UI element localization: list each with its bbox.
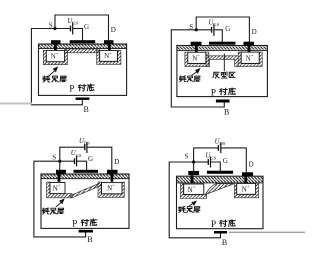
svg-text:G: G (88, 155, 93, 163)
depletion band left well (L shape) (47, 182, 73, 198)
svg-text:P: P (69, 85, 74, 95)
depletion strip under gate (65, 49, 100, 53)
svg-text:P: P (72, 219, 77, 229)
depletion band left well (43, 50, 67, 64)
svg-text:B: B (224, 107, 229, 116)
N+ region right (100, 50, 118, 61)
wire S down to contact (59, 161, 61, 170)
wire top S-D short (196, 17, 249, 42)
svg-text:GS: GS (76, 153, 82, 158)
depletion band right well (98, 182, 124, 197)
wire S down to contact (193, 162, 195, 171)
arrow to depletion layer (189, 203, 193, 206)
wire battery to G (73, 29, 82, 41)
wire top with UDS (194, 148, 218, 162)
S contact electrode (56, 170, 66, 174)
svg-text:G: G (84, 23, 89, 31)
D contact electrode (107, 170, 118, 174)
node S junction (192, 160, 195, 163)
node S junction (53, 27, 56, 30)
svg-text:G: G (223, 157, 228, 165)
svg-text:B: B (84, 105, 89, 114)
G gate electrode (209, 42, 235, 45)
wire battery to G (211, 162, 220, 171)
substrate box (39, 44, 127, 95)
D contact electrode (104, 40, 114, 44)
svg-text:D: D (249, 160, 254, 168)
battery UGS1 (70, 26, 72, 30)
svg-text:D: D (252, 28, 257, 36)
oxide layer hatched (177, 177, 263, 183)
S contact electrode (191, 42, 202, 46)
G gate electrode (74, 170, 99, 173)
wire S left to body loop (31, 29, 82, 105)
battery UGS2 (211, 28, 213, 32)
N+ region right (241, 52, 259, 63)
label haojinceng (depletion layer) (178, 206, 185, 212)
N+ region left (188, 52, 206, 63)
svg-text:GS: GS (72, 20, 78, 25)
depletion trough under channel (206, 56, 238, 67)
substrate box (177, 46, 268, 97)
svg-text:GS: GS (210, 155, 216, 160)
gray artifact line (0, 103, 31, 105)
svg-text:GS: GS (213, 22, 219, 27)
svg-text:P: P (211, 88, 216, 98)
wire battery to G (77, 161, 86, 170)
oxide layer hatched (177, 46, 267, 50)
depletion band right well (238, 52, 262, 66)
depletion band right well (234, 183, 258, 198)
svg-text:B: B (222, 238, 227, 247)
battery UGS4 (207, 160, 209, 164)
label fanxingqu (inversion region) (213, 72, 219, 78)
N+ region left (46, 50, 64, 61)
N+ region left (50, 183, 65, 194)
svg-text:S: S (52, 154, 56, 162)
battery UDS4 (217, 146, 219, 150)
svg-text:D: D (111, 26, 116, 34)
B contact electrode (76, 98, 90, 100)
substrate box (177, 176, 264, 229)
wire S to battery (55, 28, 70, 30)
wire top with UDS (60, 147, 85, 161)
gray artifact line right (230, 231, 306, 233)
svg-text:G: G (225, 25, 230, 33)
wire battery to G (215, 30, 223, 42)
node S junction (195, 28, 198, 31)
arrow to depletion layer (49, 70, 55, 75)
S contact electrode (188, 171, 199, 175)
wire S to battery (194, 161, 208, 163)
wire S left to body loop (169, 162, 220, 238)
D contact electrode (244, 42, 255, 46)
N+ region right (102, 183, 123, 194)
svg-text:S: S (49, 22, 53, 30)
G gate electrode (70, 40, 96, 43)
substrate box (41, 174, 129, 228)
arrow to depletion layer (192, 71, 198, 75)
label haojinceng (depletion layer) (42, 208, 49, 214)
svg-text:DS: DS (219, 141, 225, 146)
svg-text:S: S (185, 152, 189, 160)
B contact electrode (214, 231, 227, 234)
depletion wedge band (tapered channel bottom) (70, 183, 102, 198)
oxide layer hatched (39, 44, 126, 48)
S contact electrode (51, 40, 61, 44)
wire S to battery (196, 29, 211, 31)
wire S to battery (60, 160, 74, 162)
D contact electrode (242, 172, 253, 176)
depletion band left well (185, 52, 209, 66)
battery UDS3 (84, 145, 86, 149)
svg-text:B: B (87, 235, 92, 244)
battery UGS3 (74, 159, 76, 163)
depletion band right well (97, 50, 121, 64)
wire top S-D short (55, 15, 109, 40)
svg-text:P: P (211, 220, 216, 230)
N+ region left (184, 184, 204, 195)
wire S left to body loop (171, 30, 224, 107)
oxide layer hatched (42, 174, 129, 178)
label haojinceng (depletion layer) (43, 76, 50, 82)
label haojinceng (depletion layer) (179, 76, 186, 82)
B contact electrode (79, 230, 93, 233)
arrow to depletion layer (56, 202, 62, 207)
node S junction (58, 160, 61, 163)
svg-text:S: S (189, 23, 193, 31)
depletion band left well (L shape) (181, 183, 207, 198)
pinch-off wedge hatched (205, 184, 234, 195)
svg-text:DS: DS (84, 141, 90, 146)
G gate electrode (207, 171, 233, 174)
pointer line inversion region (223, 54, 225, 71)
B contact electrode (216, 100, 230, 103)
N+ region right (237, 183, 256, 194)
svg-text:D: D (114, 158, 119, 166)
wire S left to body loop (34, 161, 86, 237)
